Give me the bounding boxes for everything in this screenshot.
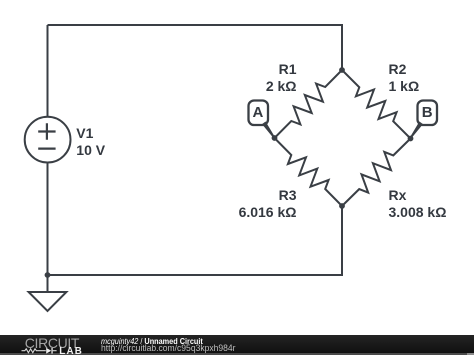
CircuitLab logo text [25, 336, 79, 350]
label 10 V [76, 143, 105, 157]
label V1 [76, 126, 93, 140]
junction dot bottom node [339, 203, 345, 209]
resistor R3 body [275, 138, 343, 206]
label R1 [197, 62, 297, 76]
logo resistor-diode mark [21, 347, 58, 355]
resistor R1 body [275, 70, 343, 138]
junction dot top node [339, 67, 345, 73]
ground stem [47, 275, 49, 292]
V1 plus sign [38, 123, 55, 140]
label 2 kOhm [197, 79, 297, 93]
footer title [101, 336, 203, 346]
ground triangle [29, 292, 67, 311]
junction dot node B [408, 136, 414, 142]
label 6.016 kOhm [197, 205, 297, 219]
scrollbar corner [467, 353, 474, 355]
label R3 [197, 188, 297, 202]
V1 minus sign [38, 148, 55, 150]
wire bottom horizontal to bridge bottom [48, 206, 343, 275]
wire left vertical V1 top lead [47, 25, 49, 117]
node flag A pole [262, 122, 275, 139]
label 1 kOhm [389, 79, 420, 93]
junction dot ground node [45, 272, 51, 278]
logo LAB [59, 347, 83, 357]
resistor Rx body [342, 139, 411, 207]
flag letter A [248, 106, 268, 120]
wire V1 bottom lead [47, 163, 49, 276]
voltage source V1 circle [25, 117, 71, 163]
label R2 [389, 62, 407, 76]
wire top horizontal from V1 to bridge top [48, 25, 343, 70]
label Rx [389, 188, 407, 202]
flag letter B [417, 106, 437, 120]
footer bar [0, 335, 474, 353]
node flag B box [418, 101, 438, 126]
label 3.008 kOhm [389, 205, 447, 219]
resistor R2 body [342, 70, 411, 139]
node flag B pole [410, 122, 423, 139]
footer url [101, 343, 235, 353]
node flag A box [249, 101, 269, 126]
junction dot node A [272, 135, 278, 141]
